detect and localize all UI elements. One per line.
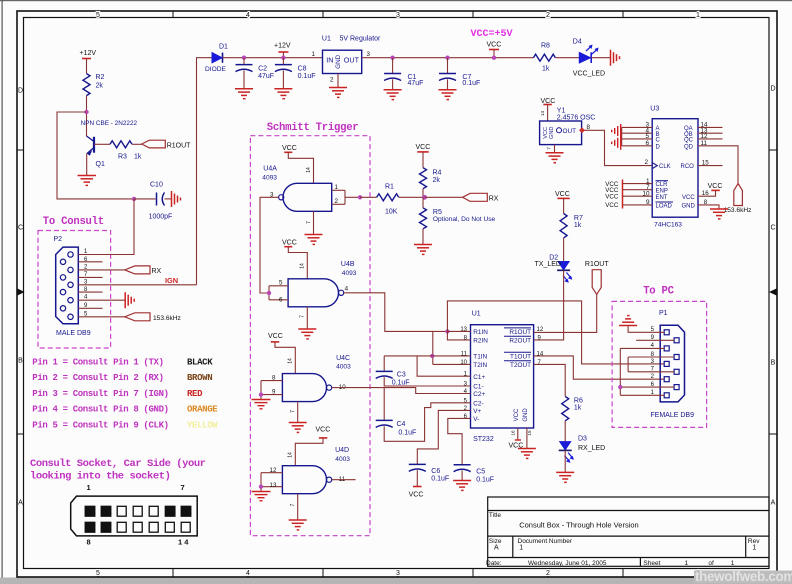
svg-text:VCC: VCC: [268, 333, 283, 340]
U4B output wire: [344, 292, 351, 294]
nand gate U4D 4003: [282, 447, 350, 494]
LED D4 VCC_LED: [573, 39, 605, 78]
svg-text:VCC: VCC: [543, 127, 549, 139]
U4D input stubs 12,13: [261, 473, 282, 491]
U4B out staircase to R1IN node: [351, 293, 448, 332]
capacitor C6 0.1uF: [409, 464, 449, 482]
svg-text:Date:: Date:: [486, 560, 502, 567]
U1 VCC pin16 stem: [509, 428, 524, 450]
svg-text:3: 3: [367, 51, 371, 58]
svg-text:C2-: C2-: [473, 400, 483, 407]
svg-text:+12V: +12V: [274, 43, 291, 50]
ground R5: [414, 245, 432, 255]
wire pin11 row + C3 loop top: [384, 355, 470, 357]
wire emitter down: [86, 154, 88, 176]
scan bottom gray band: [0, 578, 792, 584]
diode D1: [205, 44, 228, 74]
svg-text:5: 5: [279, 280, 283, 287]
svg-text:VCC: VCC: [514, 408, 520, 421]
svg-text:C2: C2: [258, 66, 267, 73]
ground U4A: [305, 235, 323, 245]
ground Q1 emitter: [78, 176, 97, 186]
node C7: [445, 56, 449, 60]
svg-text:7: 7: [290, 503, 296, 506]
svg-text:Q1: Q1: [96, 161, 105, 168]
svg-text:P1: P1: [659, 310, 668, 317]
svg-text:ORANGE: ORANGE: [187, 405, 218, 415]
wire D4 to ground: [591, 57, 610, 59]
svg-text:D: D: [770, 86, 775, 93]
svg-text:R2: R2: [96, 74, 105, 81]
svg-text:U4B: U4B: [341, 261, 355, 268]
svg-text:A: A: [494, 545, 499, 552]
wire junction to C10: [134, 198, 156, 200]
svg-text:1k: 1k: [574, 222, 582, 229]
svg-text:7: 7: [306, 221, 312, 224]
scan edge left: [2, 0, 3, 578]
U1 GND pin15 stem: [527, 428, 532, 448]
wires U3 right stubs QA QB QC RCO: [698, 127, 723, 165]
svg-text:ST232: ST232: [473, 436, 494, 443]
title block: [488, 497, 769, 566]
svg-text:P2: P2: [54, 236, 63, 243]
svg-text:Pin 3 = Consult Pin 7 (IGN): Pin 3 = Consult Pin 7 (IGN): [32, 389, 168, 399]
svg-text:To PC: To PC: [643, 285, 674, 297]
svg-text:3: 3: [396, 570, 400, 577]
resistor R4 2k: [420, 168, 442, 198]
capacitor C4 0.1uF: [376, 420, 417, 436]
svg-text:R1OUT: R1OUT: [585, 261, 609, 268]
svg-text:R1OUT: R1OUT: [509, 329, 531, 336]
wire P2 pin5 to 153.6kHz tag: [78, 316, 124, 318]
svg-text:5: 5: [96, 12, 100, 19]
socket caption: [30, 458, 206, 483]
svg-text:0.1uF: 0.1uF: [476, 476, 494, 483]
svg-text:C6: C6: [431, 468, 440, 475]
section box P2: [38, 231, 111, 349]
svg-text:1 4: 1 4: [178, 538, 189, 547]
wire C10 to ground: [165, 198, 172, 200]
U1 right pin names with overlines: [509, 329, 531, 369]
nand gate U4A 4093 (mirrored): [262, 166, 331, 212]
svg-text:14: 14: [306, 167, 312, 173]
svg-text:VCC: VCC: [605, 202, 619, 209]
socket pins row1: [85, 506, 191, 516]
off-page tag RX: [463, 193, 499, 202]
wire C5 to ground: [461, 471, 463, 481]
svg-text:U1: U1: [322, 36, 331, 43]
wire P1 pin8/7 tie: [628, 357, 674, 372]
svg-text:VCC: VCC: [416, 144, 431, 151]
C3 loop left vertical lower + pin3 row: [384, 377, 470, 386]
svg-text:3: 3: [396, 12, 400, 19]
svg-text:5V Regulator: 5V Regulator: [340, 36, 382, 43]
svg-text:C10: C10: [150, 182, 163, 189]
svg-text:153.6kHz: 153.6kHz: [153, 315, 181, 322]
svg-text:Y1: Y1: [557, 107, 566, 114]
VCC feeds CLR/ENP/ENT/LOAD: [605, 181, 619, 209]
wire R6 to D3: [564, 421, 566, 442]
U3 inside pin names: [656, 126, 696, 210]
svg-text:RX_LED: RX_LED: [578, 445, 605, 452]
nand gate U4C 4003: [282, 355, 351, 402]
capacitor C5 0.1uF: [454, 465, 495, 484]
svg-text:1: 1: [519, 545, 523, 552]
power +12V (R2): [80, 50, 97, 74]
border zone digits bottom: [96, 570, 700, 577]
svg-text:1: 1: [752, 545, 756, 552]
U4A input stubs 1,2: [332, 190, 360, 204]
wire P2 pin9 stub: [78, 307, 102, 309]
svg-text:OUT: OUT: [344, 56, 360, 65]
svg-text:Wednesday, June 01, 2005: Wednesday, June 01, 2005: [528, 560, 607, 567]
node U4B inputs: [267, 291, 271, 295]
wire T2OUT pin7 to R6: [534, 364, 566, 396]
power VCC (R7): [555, 191, 570, 214]
U3 CLK wedge: [652, 163, 657, 169]
wire P2 pin8 stub: [78, 291, 102, 293]
svg-text:R4: R4: [433, 170, 442, 177]
svg-text:0.1uF: 0.1uF: [462, 80, 480, 87]
off-page tag R1OUT (transistor): [142, 140, 191, 149]
wire pin10 row: [433, 363, 471, 365]
svg-text:2k: 2k: [433, 177, 441, 184]
svg-text:Sheet: Sheet: [643, 560, 660, 567]
svg-text:1: 1: [87, 483, 91, 492]
svg-text:ENP: ENP: [656, 188, 668, 194]
border mid arrow right: [769, 289, 777, 296]
svg-text:5: 5: [96, 570, 100, 577]
U1 left pin names: [473, 329, 488, 423]
node C10/pin1 junction: [132, 197, 136, 201]
capacitor C10 1000pF: [149, 182, 173, 221]
svg-text:7: 7: [290, 410, 296, 413]
capacitor C3 0.1uF: [376, 371, 410, 386]
node T1IN: [430, 354, 434, 358]
svg-text:12: 12: [270, 467, 277, 474]
ground U1 reg: [329, 88, 347, 98]
node C8: [281, 56, 285, 60]
regulator U1 5V: [322, 36, 381, 74]
svg-text:BROWN: BROWN: [187, 373, 212, 383]
svg-text:R1: R1: [385, 184, 394, 191]
svg-text:T2IN: T2IN: [473, 362, 487, 369]
U3 CLR/LOAD overlines: [656, 180, 669, 182]
wire R7 to D2: [563, 238, 565, 262]
resistor R5 (optional): [420, 197, 496, 244]
V+ pin2 wire to C6: [417, 410, 470, 464]
section box P1: [612, 301, 707, 427]
svg-text:10: 10: [460, 360, 467, 366]
resistor R3 1k: [110, 141, 142, 161]
svg-text:R3: R3: [118, 154, 127, 161]
wire pin12 R1OUT to tag: [534, 294, 597, 332]
svg-text:U4C: U4C: [336, 355, 350, 362]
ground D3: [556, 472, 574, 482]
svg-text:NPN CBE - 2N2222: NPN CBE - 2N2222: [81, 120, 138, 127]
node U4A out tie: [358, 195, 362, 199]
pin 7 stem U4A: [306, 211, 314, 234]
U3 right pin numbers: [701, 122, 710, 206]
svg-text:R5: R5: [433, 209, 442, 216]
power VCC (U4A): [282, 145, 314, 183]
power +12V (rail): [274, 43, 291, 58]
ground U3: [710, 209, 728, 219]
U1 left pin numbers: [460, 327, 467, 420]
svg-text:11: 11: [461, 351, 468, 357]
ground P1 pin5 (inverted): [619, 316, 637, 326]
off-page tag R1OUT (down): [585, 261, 609, 294]
power VCC (C6): [409, 487, 424, 499]
wire P2 pin1 up to C10 node: [78, 199, 134, 255]
svg-text:1000pF: 1000pF: [149, 214, 173, 221]
node U4D inputs: [259, 485, 263, 489]
svg-text:+12V: +12V: [80, 50, 97, 57]
wire P2 pin7 stub: [78, 276, 102, 278]
ground (rotated right) at C10: [172, 191, 181, 207]
wire node to pin13: [447, 330, 470, 332]
ground (rotated left) C-D tie: [612, 136, 621, 150]
svg-text:D: D: [656, 144, 661, 150]
wire IGN vertical to rail: [197, 58, 213, 285]
pin 7 stem U4B: [300, 307, 308, 329]
power VCC (U4B): [282, 239, 307, 278]
svg-text:D: D: [18, 88, 23, 95]
ground C8: [274, 89, 292, 99]
resistor R8 1k: [533, 43, 555, 73]
ground U4D inputs: [252, 492, 271, 501]
svg-text:C8: C8: [298, 66, 307, 73]
connector P1 FEMALE DB9: [650, 310, 694, 419]
svg-text:74HC163: 74HC163: [654, 222, 682, 229]
node U4C inputs: [259, 392, 263, 396]
svg-text:47uF: 47uF: [258, 73, 274, 80]
svg-text:VCC: VCC: [555, 191, 570, 198]
svg-text:16: 16: [511, 430, 516, 436]
power VCC (U3 pin16): [698, 183, 722, 196]
svg-text:looking into the socket): looking into the socket): [30, 470, 170, 482]
svg-text:2: 2: [546, 12, 550, 19]
V- pin6 wire to C5: [448, 418, 471, 464]
svg-text:R2IN: R2IN: [473, 337, 488, 344]
svg-text:Pin 4 = Consult Pin 8 (GND): Pin 4 = Consult Pin 8 (GND): [32, 405, 168, 415]
svg-text:D3: D3: [578, 436, 587, 443]
svg-text:C1-: C1-: [473, 384, 483, 391]
svg-text:GND: GND: [549, 127, 555, 139]
section box Schmitt Trigger: [250, 136, 370, 536]
U4C out row to pin4 jog: [345, 388, 471, 394]
svg-text:C3: C3: [397, 372, 406, 379]
node P1 pin6: [618, 385, 622, 389]
wire R8 to D4: [556, 57, 580, 59]
svg-text:14: 14: [540, 111, 545, 117]
svg-text:1: 1: [696, 12, 700, 19]
svg-text:D1: D1: [219, 44, 228, 51]
node C2: [242, 56, 246, 60]
wire rail D1 to U1 IN: [223, 57, 323, 59]
svg-text:Schmitt Trigger: Schmitt Trigger: [267, 122, 359, 134]
ground (rotated left) A-B tie: [612, 124, 621, 138]
U1 right pin numbers: [537, 327, 544, 366]
svg-text:8: 8: [87, 538, 91, 547]
U4A output wire to U4B: [260, 197, 279, 293]
svg-text:4: 4: [345, 286, 349, 293]
svg-text:C2+: C2+: [473, 391, 485, 398]
svg-text:Document Number: Document Number: [518, 538, 573, 545]
svg-text:1: 1: [312, 51, 316, 58]
svg-text:V+: V+: [473, 408, 481, 415]
svg-text:QD: QD: [684, 144, 694, 150]
svg-text:10K: 10K: [385, 209, 398, 216]
U4B input stubs 5,6: [269, 286, 288, 300]
svg-text:VCC: VCC: [605, 193, 619, 200]
svg-text:A: A: [771, 500, 776, 507]
svg-text:IN: IN: [326, 56, 333, 65]
svg-text:153.6kHz: 153.6kHz: [724, 207, 752, 214]
C4 loop bottom to pin5 staircase: [384, 403, 470, 442]
svg-text:D4: D4: [573, 39, 582, 46]
border mid arrow left: [18, 289, 25, 296]
svg-text:RED: RED: [187, 389, 203, 399]
wire C6 to VCC: [416, 470, 418, 486]
svg-text:13: 13: [460, 327, 467, 333]
svg-text:Title: Title: [489, 512, 501, 519]
socket pins row2: [85, 522, 190, 532]
off-page tag 153.6kHz (P2): [125, 313, 181, 322]
svg-text:4003: 4003: [335, 456, 350, 463]
svg-text:VCC: VCC: [282, 239, 297, 246]
oscillator Y1 2.4576 OSC: [540, 107, 596, 144]
ground U4C inputs: [252, 400, 271, 409]
svg-text:1: 1: [685, 560, 689, 567]
ground U4C: [289, 423, 307, 433]
capacitor C8 0.1uF: [275, 58, 316, 89]
svg-text:U1: U1: [472, 311, 481, 318]
wire U3 GND pin8: [698, 205, 719, 209]
C3 loop left vertical upper: [383, 356, 385, 371]
svg-text:C1+: C1+: [473, 374, 485, 381]
svg-text:4: 4: [246, 570, 250, 577]
svg-text:4093: 4093: [262, 175, 277, 182]
svg-text:1: 1: [731, 560, 735, 567]
ground C2: [235, 89, 253, 99]
wires U3 inputs A-D: [622, 127, 653, 145]
off-page tag 153.6kHz (up): [724, 184, 752, 215]
svg-text:4003: 4003: [336, 363, 351, 370]
power VCC (rail): [487, 42, 502, 58]
svg-text:MALE DB9: MALE DB9: [56, 330, 91, 337]
svg-text:2: 2: [330, 77, 334, 84]
svg-text:B: B: [18, 358, 23, 365]
scan edge top: [0, 0, 792, 1]
svg-text:A: A: [18, 500, 23, 507]
wire D3 to ground: [564, 450, 566, 472]
capacitor C1 47uF: [384, 58, 423, 89]
svg-text:U4D: U4D: [335, 447, 349, 454]
svg-text:OUT: OUT: [563, 128, 577, 135]
svg-text:VCC: VCC: [316, 427, 331, 434]
svg-text:8: 8: [272, 374, 276, 381]
node C1: [390, 56, 394, 60]
svg-text:2: 2: [645, 159, 649, 166]
svg-text:RX: RX: [152, 268, 162, 275]
svg-text:47uF: 47uF: [408, 80, 424, 87]
svg-text:15: 15: [527, 430, 532, 436]
svg-text:QC: QC: [684, 138, 694, 144]
svg-text:C: C: [18, 225, 23, 232]
C3 loop right vertical + pin1 row: [417, 356, 470, 376]
svg-text:Pin 5 = Consult Pin 9 (CLK): Pin 5 = Consult Pin 9 (CLK): [32, 420, 168, 430]
svg-text:0.1uF: 0.1uF: [431, 476, 449, 483]
ground U1: [518, 449, 536, 459]
ground U4D: [289, 520, 307, 530]
svg-text:Pin 2 = Consult Pin 2 (RX): Pin 2 = Consult Pin 2 (RX): [32, 373, 163, 383]
pin 7 GND stem Y1: [547, 145, 555, 153]
svg-text:2k: 2k: [96, 83, 104, 90]
P1 pin numbers: [651, 327, 655, 396]
svg-text:VCC: VCC: [708, 183, 723, 190]
wire P1 pin9 stub: [636, 339, 674, 341]
wire P2 pin4 to ground: [78, 299, 125, 301]
transistor Q1: [87, 136, 105, 168]
svg-text:R2OUT: R2OUT: [509, 337, 531, 344]
chip U1 ST232: [471, 311, 534, 444]
LED D2 TX_LED: [535, 254, 573, 283]
svg-text:GND: GND: [682, 204, 696, 210]
border zone letters left: [18, 88, 23, 507]
svg-text:14: 14: [537, 351, 544, 357]
pin 8 OUT wire Y1 to CLK: [579, 124, 652, 166]
svg-text:6: 6: [279, 297, 283, 304]
svg-text:thewolfweb.com: thewolfweb.com: [695, 569, 792, 584]
svg-text:0.1uF: 0.1uF: [298, 73, 316, 80]
svg-text:VCC: VCC: [282, 145, 297, 152]
ground U4B: [298, 329, 316, 339]
svg-text:1k: 1k: [134, 154, 142, 161]
svg-text:TX_LED: TX_LED: [535, 261, 561, 268]
svg-text:Consult Socket, Car Side (your: Consult Socket, Car Side (your: [30, 458, 206, 470]
P2 pin numbers: [84, 249, 88, 317]
ground Y1: [546, 153, 564, 163]
C4 loop left vertical upper: [383, 388, 385, 420]
resistor R2: [83, 74, 105, 96]
wire rail OUT to R8: [362, 57, 534, 59]
node VCC rail: [492, 56, 496, 60]
svg-text:FEMALE DB9: FEMALE DB9: [650, 412, 694, 419]
border zone letters right: [770, 86, 775, 507]
pin 2 GND stem of U1 reg: [330, 74, 338, 88]
wire node down to pin8 R2IN: [447, 331, 470, 340]
svg-text:VCC=+5V: VCC=+5V: [471, 29, 513, 40]
off-page tag RX (P2): [125, 266, 162, 275]
socket pin labels 1,7: [87, 483, 185, 492]
svg-text:C5: C5: [476, 469, 485, 476]
svg-text:Optional, Do Not Use: Optional, Do Not Use: [433, 216, 496, 223]
svg-text:14: 14: [300, 263, 306, 269]
wire feedback loop left: [57, 112, 134, 199]
svg-text:T1IN: T1IN: [473, 353, 487, 360]
wire P1 pin5 to ground: [628, 326, 664, 332]
svg-text:IGN: IGN: [165, 276, 178, 285]
capacitor C7 0.1uF: [439, 58, 480, 89]
svg-text:GND: GND: [523, 408, 529, 422]
svg-text:DIODE: DIODE: [205, 66, 226, 73]
U4C input stubs 8,9: [261, 381, 282, 399]
U4C output wire: [332, 387, 345, 389]
nand gate U4B 4093: [288, 261, 357, 307]
capacitor C2 47uF: [236, 58, 275, 89]
svg-text:VCC: VCC: [409, 491, 424, 498]
